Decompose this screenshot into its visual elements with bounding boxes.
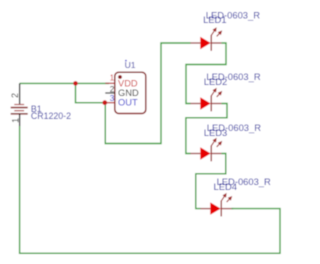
svg-text:U1: U1 <box>125 60 136 70</box>
LED LED4 <box>200 193 233 217</box>
svg-text:3: 3 <box>110 94 115 103</box>
LED2 cathode bar <box>210 96 212 112</box>
battery plate long bottom <box>11 113 28 115</box>
wire: LED1 cathode to LED2 anode <box>186 43 226 104</box>
LED2 anode pin <box>190 103 200 105</box>
wire: junction down to OUT row <box>76 83 105 102</box>
label LED-0603_R (LED1) <box>206 10 260 21</box>
LED3 arrow 1 <box>211 140 215 146</box>
wire: battery plus to VDD row <box>20 82 109 84</box>
LED4 cathode pin <box>221 208 233 210</box>
wire: OUT down, right, feed up to LED1 <box>105 43 190 144</box>
U1 pin 1 line <box>105 82 115 84</box>
svg-text:LED2: LED2 <box>204 76 227 87</box>
LED2 cathode pin <box>211 103 221 105</box>
wire: LED3 cathode to LED4 anode <box>196 154 226 209</box>
wire: LED4 cathode return to battery minus <box>20 126 280 253</box>
label LED2 <box>204 76 227 87</box>
svg-text:CR1220-2: CR1220-2 <box>31 111 71 121</box>
IC U1 <box>105 72 146 113</box>
LED LED2 <box>190 88 222 112</box>
label LED4 <box>214 181 237 192</box>
LED LED1 <box>190 27 222 51</box>
label CR1220-2 <box>31 111 71 121</box>
LED3 arrow 2 <box>217 143 221 147</box>
LED2 triangle <box>200 97 210 109</box>
LED4 arrow 1 <box>221 195 225 201</box>
junction dot at OUT pin <box>102 100 107 105</box>
LED1 cathode pin <box>211 42 221 44</box>
battery pin 1 line <box>19 114 21 126</box>
svg-text:LED4: LED4 <box>214 181 237 192</box>
LED4 arrow 2 <box>227 198 231 202</box>
wire: LED2 cathode to LED3 anode <box>186 104 227 154</box>
label U1 <box>125 60 136 71</box>
LED3 cathode bar <box>210 146 212 162</box>
LED4 triangle <box>210 202 220 214</box>
LED2 arrow 1 <box>211 90 215 96</box>
LED1 anode pin <box>190 42 200 44</box>
LED1 triangle <box>200 37 210 49</box>
LED2 arrow 2 <box>217 93 221 97</box>
battery pin 2 line <box>19 83 21 104</box>
LED1 cathode bar <box>210 35 212 51</box>
svg-text:1: 1 <box>110 74 115 83</box>
LED3 cathode pin <box>211 153 221 155</box>
U1 pin1 indicator dot <box>118 75 122 79</box>
LED3 anode pin <box>190 153 200 155</box>
label LED1 <box>203 14 226 25</box>
svg-text:1: 1 <box>10 118 20 123</box>
label B1 <box>31 104 42 114</box>
U1 pin 2 line <box>105 92 115 94</box>
svg-text:LED3: LED3 <box>204 127 227 138</box>
battery B1 <box>10 83 28 126</box>
battery plate short top <box>14 104 24 106</box>
LED4 anode pin <box>200 208 210 210</box>
label LED3 <box>204 127 227 138</box>
U1 pin 3 line <box>105 102 115 104</box>
label LED-0603_R (LED4) <box>217 176 271 187</box>
svg-text:2: 2 <box>110 85 115 94</box>
U1 body box <box>115 72 146 113</box>
svg-text:OUT: OUT <box>118 97 138 107</box>
LED4 cathode bar <box>220 201 222 217</box>
battery plate short <box>14 110 24 112</box>
LED LED3 <box>190 138 222 162</box>
junction dot A <box>73 81 78 86</box>
LED3 triangle <box>200 147 210 159</box>
label LED-0603_R (LED3) <box>207 122 261 133</box>
LED1 arrow 1 <box>211 30 215 36</box>
LED1 arrow 2 <box>217 33 221 37</box>
svg-text:2: 2 <box>10 93 20 98</box>
battery plate long <box>11 107 28 109</box>
svg-text:LED1: LED1 <box>203 14 226 25</box>
label LED-0603_R (LED2) <box>206 71 260 82</box>
